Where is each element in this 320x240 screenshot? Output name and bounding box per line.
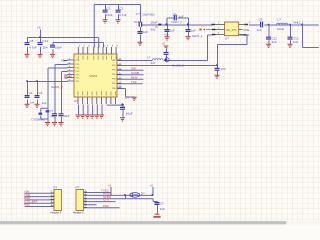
svg-text:1uF: 1uF bbox=[160, 207, 165, 211]
svg-text:CTRL: CTRL bbox=[243, 29, 250, 32]
svg-text:C4: C4 bbox=[39, 91, 43, 95]
svg-text:1uF: 1uF bbox=[191, 29, 196, 33]
svg-text:NetC9_2: NetC9_2 bbox=[172, 63, 184, 67]
svg-text:50v: 50v bbox=[151, 28, 156, 32]
svg-text:D?: D? bbox=[141, 191, 145, 195]
svg-text:104: 104 bbox=[43, 46, 48, 50]
svg-text:1uF: 1uF bbox=[30, 100, 35, 104]
svg-text:CTS: CTS bbox=[103, 198, 109, 202]
svg-text:PD0: PD0 bbox=[103, 204, 109, 208]
svg-text:L?: L? bbox=[147, 56, 151, 60]
svg-text:7.3728MHZ: 7.3728MHZ bbox=[31, 117, 45, 121]
svg-text:10uF: 10uF bbox=[55, 46, 62, 50]
svg-text:NetL1_2: NetL1_2 bbox=[294, 21, 304, 25]
svg-text:ML_070: ML_070 bbox=[227, 28, 237, 32]
svg-text:4u7: 4u7 bbox=[151, 61, 156, 65]
svg-text:C14: C14 bbox=[43, 39, 49, 43]
svg-text:MS51: MS51 bbox=[90, 74, 98, 78]
svg-text:NetR1_2: NetR1_2 bbox=[51, 85, 63, 89]
svg-text:1uF: 1uF bbox=[179, 14, 184, 18]
svg-text:CTRL: CTRL bbox=[243, 34, 250, 37]
svg-text:U?: U? bbox=[225, 37, 229, 41]
svg-text:22pF: 22pF bbox=[51, 114, 57, 118]
svg-text:U?: U? bbox=[74, 99, 78, 103]
svg-text:NetU1_3: NetU1_3 bbox=[192, 34, 203, 38]
svg-text:P?: P? bbox=[54, 186, 58, 190]
svg-text:1uF: 1uF bbox=[170, 29, 175, 33]
svg-text:Header 6: Header 6 bbox=[73, 211, 84, 215]
svg-text:C2: C2 bbox=[120, 7, 124, 11]
svg-text:L?: L? bbox=[278, 18, 282, 22]
svg-text:+5: +5 bbox=[150, 183, 154, 187]
svg-text:PD0: PD0 bbox=[24, 203, 30, 207]
svg-text:10uF: 10uF bbox=[126, 111, 133, 115]
svg-text:10uH: 10uH bbox=[277, 27, 284, 31]
svg-text:C?: C? bbox=[136, 12, 140, 16]
svg-text:C3: C3 bbox=[29, 91, 33, 95]
svg-text:4.7uF: 4.7uF bbox=[119, 13, 127, 17]
svg-text:10uF: 10uF bbox=[151, 20, 158, 24]
svg-text:C1: C1 bbox=[107, 7, 111, 11]
svg-text:+5: +5 bbox=[108, 183, 112, 187]
svg-text:1uF: 1uF bbox=[143, 30, 148, 34]
svg-text:P?: P? bbox=[76, 186, 80, 190]
svg-text:1WA: 1WA bbox=[61, 58, 67, 62]
svg-text:Y?: Y? bbox=[49, 109, 53, 113]
svg-text:10uF: 10uF bbox=[106, 13, 113, 17]
svg-text:4.7uF: 4.7uF bbox=[29, 46, 37, 50]
svg-text:SW: SW bbox=[131, 67, 136, 71]
svg-text:1uF: 1uF bbox=[272, 40, 277, 44]
svg-text:TLE: TLE bbox=[131, 80, 137, 84]
svg-text:C7: C7 bbox=[173, 12, 177, 16]
svg-text:R?: R? bbox=[125, 96, 129, 100]
svg-text:1uF: 1uF bbox=[257, 28, 262, 32]
svg-text:104: 104 bbox=[221, 67, 226, 71]
svg-text:22pF: 22pF bbox=[64, 114, 70, 118]
svg-text:Header 5: Header 5 bbox=[51, 211, 62, 215]
svg-text:NetC7_2: NetC7_2 bbox=[172, 20, 183, 24]
svg-text:1uF: 1uF bbox=[293, 40, 298, 44]
svg-text:C9: C9 bbox=[259, 18, 263, 22]
svg-text:+5V: +5V bbox=[164, 33, 169, 37]
svg-text:C8: C8 bbox=[30, 39, 34, 43]
svg-text:C10: C10 bbox=[134, 20, 140, 24]
svg-text:1uF: 1uF bbox=[42, 101, 47, 105]
svg-text:+5: +5 bbox=[37, 26, 41, 30]
svg-text:SASB: SASB bbox=[131, 71, 139, 75]
svg-text:C?: C? bbox=[160, 201, 164, 205]
svg-text:MNV: MNV bbox=[131, 76, 138, 80]
svg-text:10uF/50v: 10uF/50v bbox=[142, 12, 155, 16]
svg-text:+5: +5 bbox=[162, 42, 166, 46]
